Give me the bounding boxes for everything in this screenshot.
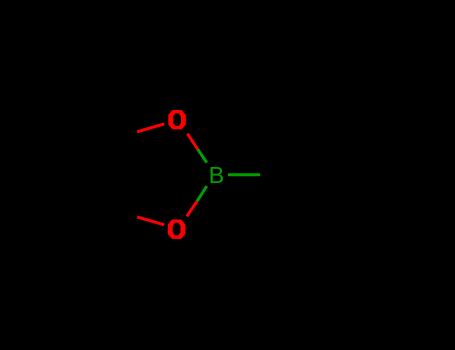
svg-text:B: B bbox=[209, 162, 225, 188]
